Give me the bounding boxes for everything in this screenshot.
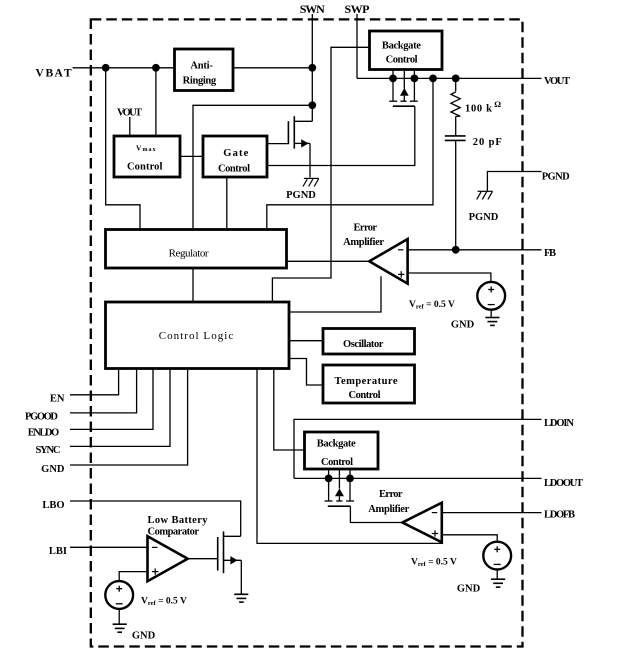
- pin PGND lead (right): [487, 172, 541, 192]
- wire VOUT rail from SWP to VOUT pin: [357, 77, 542, 79]
- wire comparator plus input to Vref source: [119, 572, 147, 582]
- pin LBI lead to comparator minus input: [70, 546, 148, 548]
- svg-text:SYNC: SYNC: [36, 445, 61, 456]
- pin SWP lead: [356, 14, 358, 78]
- svg-text:GND: GND: [41, 464, 65, 475]
- op-amp error amplifier (LDO): [402, 503, 441, 543]
- block Vmax Control: [114, 136, 180, 177]
- ground PGND symbol near right border: [477, 191, 493, 199]
- block Regulator: [106, 230, 287, 269]
- block Backgate Control (LDO): [305, 432, 379, 469]
- svg-text:VOUT: VOUT: [117, 108, 142, 119]
- wire error amplifier to Control Logic: [289, 276, 381, 312]
- wire FB line to error amplifier minus input: [408, 249, 542, 251]
- pin GND lead: [70, 369, 188, 466]
- svg-text:Control: Control: [127, 161, 163, 172]
- wire error amplifier plus input to Vref source: [408, 273, 491, 281]
- svg-text:LBO: LBO: [42, 500, 64, 511]
- node SWN junction upper: [308, 64, 316, 72]
- wire VBAT drop to Regulator: [106, 68, 140, 230]
- svg-text:Regulator: Regulator: [169, 247, 209, 259]
- wire Control Logic to LDO error amplifier: [257, 369, 442, 544]
- op-amp error amplifier (FB): [369, 239, 407, 284]
- pin PGOOD lead: [70, 369, 137, 413]
- svg-text:Backgate: Backgate: [317, 438, 356, 449]
- wire Vmax Control to Gate Control: [180, 155, 203, 157]
- svg-text:VOUT: VOUT: [544, 76, 570, 87]
- svg-text:Low Battery: Low Battery: [148, 515, 209, 526]
- svg-text:Ω: Ω: [494, 99, 501, 109]
- svg-text:GND: GND: [132, 631, 156, 642]
- block Oscillator: [323, 329, 415, 355]
- svg-text:Gate: Gate: [223, 148, 248, 159]
- svg-text:Error: Error: [354, 223, 378, 234]
- wire gate control to PMOS gate: [267, 106, 415, 165]
- svg-text:Amplifier: Amplifier: [368, 504, 409, 515]
- voltage source Vref 0.5V (FB): [477, 282, 505, 318]
- svg-text:Anti-: Anti-: [190, 60, 213, 71]
- ground GND symbol (LDO Vref): [491, 579, 505, 587]
- svg-text:PGND: PGND: [286, 190, 316, 201]
- wire Backgate Control to Control Logic: [272, 47, 369, 302]
- node FB junction: [452, 246, 460, 254]
- pin ENLDO lead: [70, 369, 153, 430]
- wire VOUT feedback to Regulator: [267, 78, 433, 229]
- wire Control Logic to Temperature Control: [289, 359, 323, 386]
- node Q4 right terminal on LDOOUT rail: [346, 475, 354, 483]
- svg-text:LDOIN: LDOIN: [544, 418, 574, 429]
- svg-text:100 k: 100 k: [465, 104, 492, 115]
- node SWN junction lower: [308, 101, 316, 109]
- node Q4 left terminal on LDOOUT rail: [325, 475, 333, 483]
- svg-text:ENLDO: ENLDO: [28, 428, 59, 439]
- ground GND symbol (FB Vref): [485, 318, 499, 326]
- svg-text:Control: Control: [321, 457, 353, 468]
- svg-text:PGOOD: PGOOD: [25, 411, 58, 422]
- block Backgate Control (top): [370, 31, 443, 70]
- svg-text:Ringing: Ringing: [183, 76, 217, 87]
- svg-text:FB: FB: [544, 248, 556, 259]
- wire LDO error amplifier plus input to Vref source: [442, 535, 497, 542]
- svg-text:Control: Control: [386, 54, 418, 65]
- transistor Q2 backgate PMOS under Backgate Control: [389, 70, 418, 107]
- wire gate control to NMOS Q1 gate: [267, 143, 288, 145]
- wire Control Logic to LDO Backgate Control: [274, 369, 305, 451]
- node Q2 left terminal on VOUT rail: [389, 75, 397, 83]
- svg-text:LDOOUT: LDOOUT: [544, 478, 583, 489]
- transistor Q1 NMOS near Gate Control: [288, 105, 312, 177]
- node VBAT junction 2: [152, 64, 160, 72]
- svg-text:Amplifier: Amplifier: [343, 237, 384, 248]
- pin LDOIN lead: [294, 419, 542, 478]
- node Q2 right terminal on VOUT rail: [411, 75, 419, 83]
- svg-text:V B A T: V B A T: [36, 68, 72, 80]
- wire VBAT drop to Vmax Control: [155, 68, 157, 136]
- op-amp Low Battery Comparator: [148, 536, 188, 581]
- ground symbol under Q3: [234, 594, 248, 602]
- svg-text:SWP: SWP: [345, 2, 370, 16]
- pin LBO lead to Q3 drain: [70, 501, 241, 536]
- block Temperature Control: [323, 365, 415, 403]
- block Anti-Ringing: [175, 49, 234, 91]
- svg-text:Control: Control: [218, 163, 250, 174]
- node VOUT feedback tap: [429, 75, 437, 83]
- wire Control Logic to Oscillator: [289, 340, 323, 342]
- voltage source Vref 0.5V (comparator): [105, 581, 133, 624]
- svg-text:LBI: LBI: [49, 546, 67, 557]
- svg-text:SWN: SWN: [300, 2, 325, 16]
- wire LDOOUT rail: [294, 477, 542, 479]
- wire LDO error amplifier output to PMOS Q4 gate: [350, 506, 402, 522]
- svg-text:LDOFB: LDOFB: [544, 510, 575, 521]
- pin EN lead: [70, 369, 119, 395]
- pin SYNC lead: [70, 369, 170, 447]
- wire anti-ringing output to SWN: [233, 67, 312, 69]
- svg-text:PGND: PGND: [542, 172, 570, 183]
- svg-text:EN: EN: [50, 393, 65, 404]
- pin LDOFB lead to LDO error amplifier minus input: [442, 512, 542, 514]
- transistor Q4 backgate PMOS under LDO Backgate Control: [325, 469, 355, 506]
- IC boundary dashed border: [91, 19, 523, 646]
- voltage source Vref 0.5V (LDO): [483, 542, 511, 579]
- svg-text:PGND: PGND: [469, 212, 499, 223]
- pin SWN lead: [311, 14, 313, 105]
- wire error amplifier output to Regulator: [287, 260, 370, 262]
- pin VBAT lead: [73, 67, 175, 69]
- wire SWN node to Regulator: [193, 105, 312, 229]
- svg-text:Control Logic: Control Logic: [159, 330, 234, 342]
- svg-text:Comparator: Comparator: [148, 527, 200, 538]
- svg-text:Control: Control: [349, 390, 381, 401]
- capacitor 20pF: [445, 136, 466, 250]
- wire comparator output to Q3 gate: [188, 558, 218, 560]
- svg-text:Temperature: Temperature: [335, 376, 398, 387]
- wire VOUT label drop into Vmax Control: [129, 117, 131, 136]
- node VBAT junction 1: [102, 64, 110, 72]
- svg-text:Oscillator: Oscillator: [343, 339, 384, 350]
- svg-text:GND: GND: [451, 320, 475, 331]
- wire Regulator to Control Logic: [192, 268, 194, 302]
- block Control Logic: [106, 302, 290, 369]
- resistor 100k: [451, 78, 460, 135]
- node resistor top on VOUT rail: [452, 75, 460, 83]
- ground PGND symbol under Q1: [303, 178, 319, 186]
- svg-text:GND: GND: [457, 584, 481, 595]
- svg-text:20 pF: 20 pF: [473, 137, 502, 148]
- ground GND symbol (comparator Vref): [113, 624, 127, 632]
- block Gate Control: [203, 136, 267, 177]
- transistor Q3 NMOS at LBO: [218, 531, 242, 594]
- svg-text:Error: Error: [379, 489, 403, 500]
- wire Gate Control to Regulator: [226, 177, 228, 230]
- svg-text:Backgate: Backgate: [382, 40, 421, 51]
